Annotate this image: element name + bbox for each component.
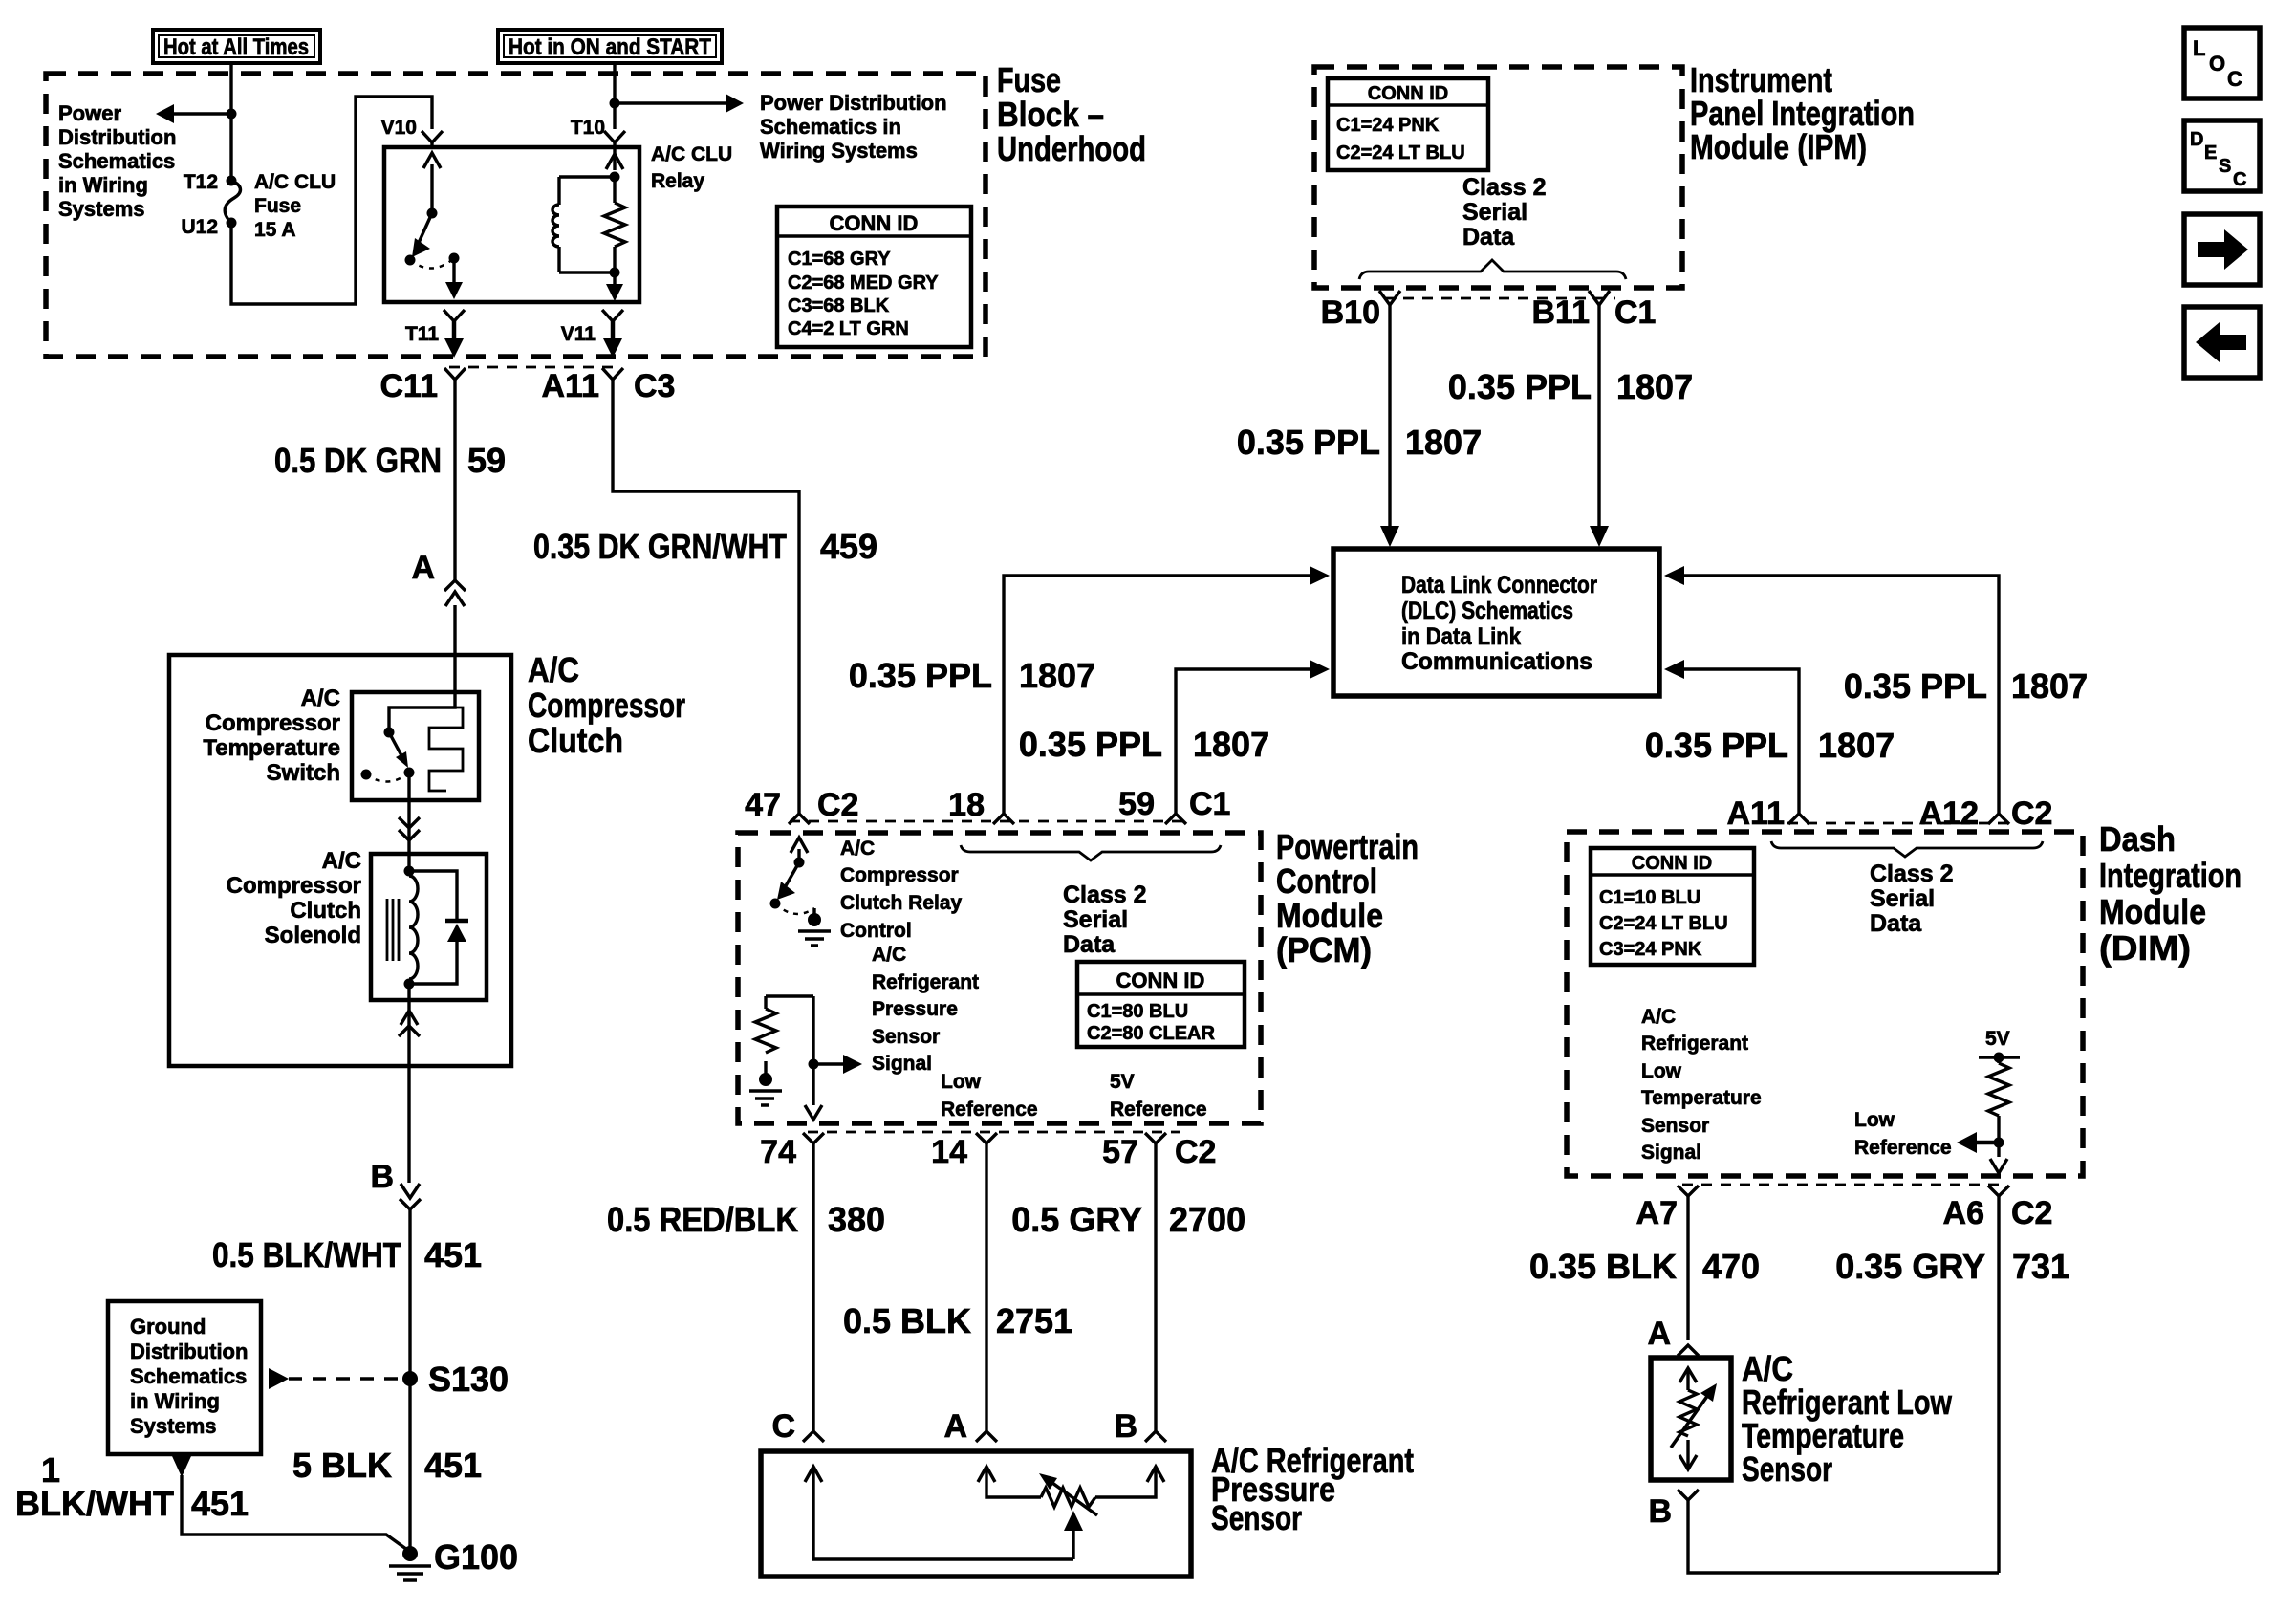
svg-text:Sensor: Sensor [1742,1449,1832,1489]
svg-text:Systems: Systems [58,197,145,221]
svg-text:A11: A11 [542,368,600,404]
svg-text:Module (IPM): Module (IPM) [1690,127,1867,166]
svg-text:0.35 PPL: 0.35 PPL [1237,423,1380,462]
svg-text:T11: T11 [405,323,439,345]
svg-text:A: A [1647,1316,1671,1352]
svg-text:14: 14 [931,1134,967,1170]
svg-text:C2=24 LT BLU: C2=24 LT BLU [1336,142,1465,163]
svg-text:1807: 1807 [1193,725,1269,764]
svg-text:A/C: A/C [1641,1006,1676,1028]
svg-text:Fuse: Fuse [254,195,301,217]
svg-text:C2: C2 [817,787,858,823]
svg-text:C: C [2233,169,2246,190]
svg-text:A/C: A/C [872,944,906,966]
svg-text:C: C [771,1408,795,1445]
svg-text:C3=68 BLK: C3=68 BLK [788,295,890,316]
svg-text:Serial: Serial [1462,199,1527,226]
svg-text:CONN ID: CONN ID [830,211,919,235]
svg-text:Relay: Relay [651,170,704,192]
svg-text:Temperature: Temperature [203,735,340,761]
svg-text:(DLC) Schematics: (DLC) Schematics [1401,598,1573,624]
svg-text:Low: Low [941,1071,982,1093]
svg-text:Reference: Reference [1854,1137,1952,1159]
svg-text:18: 18 [948,787,985,823]
svg-text:in Data Link: in Data Link [1401,623,1521,650]
svg-text:Temperature: Temperature [1641,1087,1762,1109]
svg-text:A11: A11 [1727,795,1786,832]
svg-text:0.5 RED/BLK: 0.5 RED/BLK [607,1200,798,1239]
svg-text:Ground: Ground [130,1315,206,1339]
svg-text:C4=2 LT GRN: C4=2 LT GRN [788,318,909,339]
svg-text:0.35 PPL: 0.35 PPL [1645,726,1788,765]
svg-text:Data: Data [1462,224,1515,250]
svg-text:Sensor: Sensor [1211,1498,1302,1537]
svg-text:C3: C3 [634,368,675,404]
svg-text:15 A: 15 A [254,219,296,241]
svg-text:Switch: Switch [267,760,340,786]
svg-text:E: E [2204,142,2217,163]
svg-text:Block –: Block – [997,95,1104,134]
svg-text:Control: Control [840,920,912,942]
svg-text:Power: Power [58,101,121,125]
svg-text:5 BLK: 5 BLK [292,1446,392,1485]
svg-text:C2: C2 [1175,1134,1216,1170]
svg-text:Reference: Reference [941,1099,1038,1121]
svg-text:Class 2: Class 2 [1870,860,1954,887]
svg-text:Schematics: Schematics [130,1364,247,1388]
svg-text:Pressure: Pressure [872,998,958,1020]
svg-text:380: 380 [828,1200,885,1239]
svg-text:BLK/WHT: BLK/WHT [15,1484,174,1523]
svg-text:Module: Module [1276,896,1383,935]
svg-text:5V: 5V [1110,1071,1135,1093]
svg-text:A/C: A/C [322,848,361,874]
svg-text:Dash: Dash [2099,819,2176,859]
svg-text:Clutch Relay: Clutch Relay [840,892,963,914]
svg-text:459: 459 [820,527,877,566]
svg-text:Low: Low [1854,1109,1895,1131]
svg-text:Refrigerant: Refrigerant [872,971,979,993]
svg-text:C3=24 PNK: C3=24 PNK [1599,939,1702,960]
svg-text:C2: C2 [2011,1195,2052,1231]
svg-text:Class 2: Class 2 [1462,174,1547,201]
svg-text:Data Link Connector: Data Link Connector [1401,572,1597,599]
svg-text:Sensor: Sensor [1641,1115,1709,1137]
svg-text:C1: C1 [1614,294,1656,331]
svg-text:A/C CLU: A/C CLU [254,171,336,193]
svg-text:1807: 1807 [1405,423,1482,462]
svg-text:Power Distribution: Power Distribution [760,91,947,115]
svg-text:0.5 GRY: 0.5 GRY [1011,1200,1142,1239]
svg-text:(PCM): (PCM) [1276,930,1372,969]
svg-text:Low: Low [1641,1060,1682,1082]
svg-text:U12: U12 [181,216,218,238]
svg-text:A/C CLU: A/C CLU [651,143,732,165]
svg-text:in Wiring: in Wiring [130,1389,220,1413]
svg-text:451: 451 [424,1446,482,1485]
svg-text:Distribution: Distribution [130,1339,248,1363]
svg-text:A: A [411,550,435,586]
svg-text:47: 47 [745,787,781,823]
svg-text:S130: S130 [428,1360,509,1399]
svg-text:S: S [2219,156,2231,177]
svg-text:1807: 1807 [1818,726,1895,765]
svg-text:Compressor: Compressor [528,686,685,725]
svg-text:0.5 DK GRN: 0.5 DK GRN [274,441,442,480]
svg-text:5V: 5V [1985,1028,2010,1050]
svg-text:0.35 BLK: 0.35 BLK [1529,1247,1677,1286]
svg-text:2700: 2700 [1169,1200,1245,1239]
svg-text:1807: 1807 [2011,666,2088,706]
svg-text:Signal: Signal [1641,1142,1701,1164]
svg-text:Class 2: Class 2 [1063,882,1147,908]
svg-text:Serial: Serial [1870,885,1935,912]
svg-text:G100: G100 [434,1537,518,1577]
svg-text:Data: Data [1870,910,1922,937]
svg-text:C1=24 PNK: C1=24 PNK [1336,115,1440,136]
svg-text:0.35 GRY: 0.35 GRY [1835,1247,1985,1286]
svg-text:Wiring Systems: Wiring Systems [760,139,918,163]
svg-text:A/C: A/C [528,650,579,689]
svg-text:T10: T10 [571,117,605,139]
svg-text:B: B [1648,1493,1672,1530]
svg-text:V10: V10 [381,117,417,139]
svg-text:A7: A7 [1636,1195,1678,1231]
svg-text:A12: A12 [1919,795,1979,832]
svg-text:Hot at All Times: Hot at All Times [163,34,309,60]
svg-text:Fuse: Fuse [997,60,1061,99]
svg-text:0.5 BLK/WHT: 0.5 BLK/WHT [212,1235,401,1274]
svg-text:Module: Module [2099,892,2206,931]
svg-text:Systems: Systems [130,1414,217,1438]
svg-text:74: 74 [760,1134,796,1170]
svg-text:Hot in ON and START: Hot in ON and START [509,34,711,60]
svg-text:C1=68 GRY: C1=68 GRY [788,249,891,270]
svg-text:A6: A6 [1943,1195,1984,1231]
svg-text:0.35 DK GRN/WHT: 0.35 DK GRN/WHT [533,527,787,566]
svg-text:Integration: Integration [2099,856,2242,895]
svg-text:Clutch: Clutch [528,721,623,760]
svg-text:C2=24 LT BLU: C2=24 LT BLU [1599,913,1728,934]
svg-text:Solenold: Solenold [265,923,361,948]
svg-text:A/C: A/C [301,686,340,711]
svg-text:2751: 2751 [996,1301,1072,1340]
svg-text:Powertrain: Powertrain [1276,827,1419,866]
svg-text:Sensor: Sensor [872,1026,940,1048]
svg-text:CONN ID: CONN ID [1116,969,1205,992]
svg-text:A: A [943,1408,967,1445]
svg-text:D: D [2190,129,2203,150]
svg-text:L: L [2193,36,2205,60]
svg-text:C1=80 BLU: C1=80 BLU [1087,1001,1188,1022]
svg-text:Communications: Communications [1401,648,1592,675]
svg-text:0.35 PPL: 0.35 PPL [1844,666,1987,706]
svg-text:0.35 PPL: 0.35 PPL [1448,367,1592,406]
svg-text:451: 451 [191,1484,249,1523]
svg-text:B10: B10 [1321,294,1380,331]
svg-text:0.5 BLK: 0.5 BLK [843,1301,971,1340]
svg-text:0.35 PPL: 0.35 PPL [1019,725,1162,764]
svg-text:Data: Data [1063,931,1116,958]
svg-text:C2=80 CLEAR: C2=80 CLEAR [1087,1023,1215,1044]
svg-text:C2=68 MED GRY: C2=68 MED GRY [788,272,939,294]
svg-text:59: 59 [1118,786,1155,822]
svg-text:B11: B11 [1532,294,1591,331]
svg-text:59: 59 [467,441,506,480]
svg-text:A/C: A/C [840,838,875,860]
svg-text:C1=10 BLU: C1=10 BLU [1599,887,1700,908]
svg-text:C11: C11 [380,368,439,404]
svg-text:Clutch: Clutch [290,898,361,924]
svg-text:Compressor: Compressor [840,864,959,886]
svg-text:451: 451 [424,1235,482,1274]
svg-text:C: C [2227,67,2242,91]
svg-text:Serial: Serial [1063,906,1128,933]
svg-text:B: B [1114,1408,1137,1445]
svg-text:1807: 1807 [1616,367,1693,406]
svg-text:in Wiring: in Wiring [58,173,148,197]
svg-text:57: 57 [1102,1134,1138,1170]
svg-text:CONN ID: CONN ID [1368,83,1448,104]
svg-text:Signal: Signal [872,1053,932,1075]
svg-text:Compressor: Compressor [206,710,340,736]
svg-text:Schematics: Schematics [58,149,175,173]
svg-text:Refrigerant: Refrigerant [1641,1033,1748,1055]
svg-text:C2: C2 [2011,795,2052,832]
svg-text:731: 731 [2012,1247,2069,1286]
svg-text:Underhood: Underhood [997,129,1146,168]
svg-text:CONN ID: CONN ID [1632,853,1712,874]
svg-text:470: 470 [1702,1247,1760,1286]
svg-text:O: O [2209,52,2225,76]
svg-text:T12: T12 [184,171,218,193]
svg-text:1807: 1807 [1019,656,1095,695]
svg-text:V11: V11 [561,323,596,345]
svg-text:Compressor: Compressor [227,873,361,899]
svg-text:Control: Control [1276,861,1377,901]
svg-text:0.35 PPL: 0.35 PPL [849,656,992,695]
svg-text:C1: C1 [1189,786,1230,822]
svg-text:Schematics in: Schematics in [760,115,901,139]
svg-text:Reference: Reference [1110,1099,1207,1121]
svg-text:B: B [370,1159,394,1195]
svg-text:(DIM): (DIM) [2099,928,2191,968]
svg-text:Distribution: Distribution [58,125,176,149]
